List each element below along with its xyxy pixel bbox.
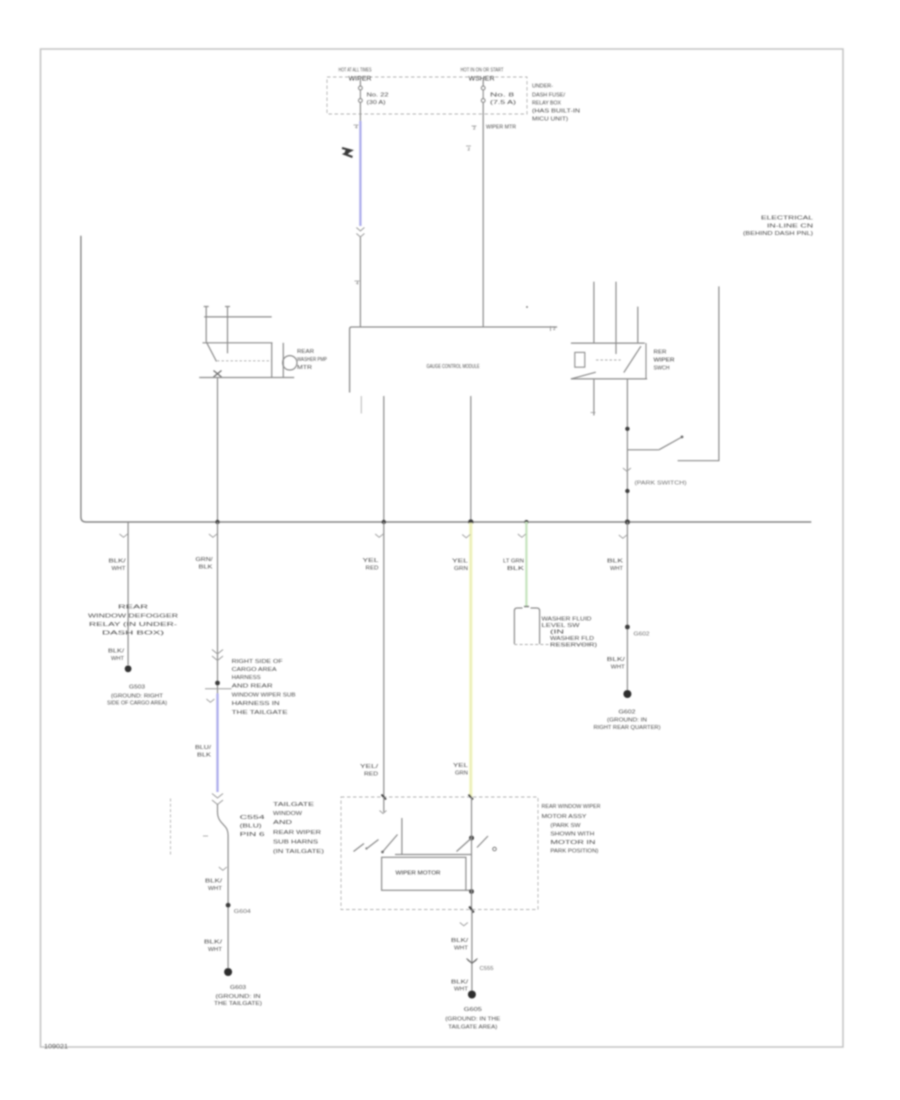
svg-text:HOT IN ON OR START: HOT IN ON OR START — [461, 68, 504, 74]
svg-text:SHOWN WITH: SHOWN WITH — [550, 832, 594, 838]
ground G3 — [623, 690, 631, 698]
svg-text:WIPER: WIPER — [654, 358, 675, 364]
svg-text:(BLU): (BLU) — [240, 824, 263, 830]
in-line connector C3 — [212, 794, 223, 805]
svg-text:BLK/: BLK/ — [108, 649, 125, 655]
svg-text:4: 4 — [356, 281, 359, 286]
svg-text:MOTOR ASSY: MOTOR ASSY — [542, 814, 588, 820]
in-line connector C1 — [356, 228, 364, 238]
svg-text:2: 2 — [467, 147, 470, 152]
drop A: wire bus to ground G1 — [127, 522, 129, 665]
wire color label drop D lower — [453, 763, 468, 777]
node: junction on lower run — [226, 903, 231, 908]
pin tick on module top — [550, 326, 552, 331]
stub wire below switch S1 — [593, 379, 595, 416]
svg-text:SIDE OF CARGO AREA): SIDE OF CARGO AREA) — [107, 701, 167, 707]
svg-text:2: 2 — [473, 126, 476, 131]
in-line connector C4 — [467, 959, 478, 964]
in-line connector note (right) — [743, 216, 813, 238]
svg-text:RIGHT SIDE OF: RIGHT SIDE OF — [232, 659, 283, 665]
svg-text:WHT: WHT — [208, 886, 222, 892]
svg-text:YEL: YEL — [453, 763, 468, 769]
wire: entry stub to switch — [383, 797, 385, 812]
switch S3 pole line — [401, 818, 403, 855]
wire: module pin to bus (left) — [383, 396, 385, 522]
svg-text:WHT: WHT — [454, 946, 468, 952]
washer motor M1: lever diagonal — [206, 342, 216, 362]
wire: motor assembly to ground G4 — [471, 910, 473, 992]
svg-text:G602: G602 — [634, 632, 650, 638]
svg-text:RELAY BOX: RELAY BOX — [532, 101, 562, 107]
svg-text:WHT: WHT — [610, 566, 623, 572]
svg-text:WASHER PMP: WASHER PMP — [297, 357, 328, 363]
svg-text:(BEHIND DASH PNL): (BEHIND DASH PNL) — [743, 231, 813, 237]
svg-text:C555: C555 — [480, 966, 494, 972]
switch S3 lever contacts — [354, 835, 398, 853]
wire: park switch return rail (L-shape) — [678, 286, 719, 460]
wire: module pin to bus (right) — [470, 396, 472, 522]
fuse F1 value label — [367, 93, 389, 107]
svg-text:THE TAILGATE: THE TAILGATE — [232, 710, 289, 716]
dashed continuation of sensor — [514, 644, 592, 646]
washer motor M1: body bottom line — [199, 377, 294, 379]
fuse box (dashed enclosure) — [327, 77, 527, 114]
node: junction at box bottom — [469, 889, 474, 894]
svg-text:WINDOW WIPER SUB: WINDOW WIPER SUB — [232, 693, 297, 699]
svg-text:WHT: WHT — [111, 656, 124, 662]
svg-text:WHT: WHT — [112, 566, 126, 572]
wire color label drop D — [452, 559, 468, 573]
svg-text:GAUGE CONTROL MODULE: GAUGE CONTROL MODULE — [427, 364, 480, 370]
svg-text:MTR: MTR — [297, 365, 313, 371]
drop D: YEL wire bus to wiper motor box — [469, 523, 473, 797]
contact tick inside box — [380, 811, 387, 814]
svg-text:WINDOW: WINDOW — [273, 811, 302, 817]
svg-text:BLK/: BLK/ — [607, 657, 626, 663]
drop B: wire bus to connector — [217, 522, 219, 694]
wire: connector C1 to module — [359, 237, 361, 327]
svg-text:PARK POSITION): PARK POSITION) — [550, 849, 598, 855]
svg-text:(7.5 A): (7.5 A) — [490, 100, 517, 106]
wire: drop B jog to lower run — [218, 804, 229, 968]
wire color label drop A — [109, 559, 127, 573]
node: junction on drop F — [625, 625, 630, 630]
wire: washer motor to bus — [217, 378, 219, 523]
pin 4 label on fuse F1 output — [354, 124, 359, 126]
wire color label drop B — [196, 557, 214, 571]
wiper switch S1: dashed link — [596, 359, 621, 361]
grommet dashed line — [170, 799, 172, 856]
fuse F2 symbol — [481, 86, 485, 102]
svg-text:(PARK SW: (PARK SW — [550, 823, 580, 829]
ground G3 label — [594, 710, 661, 732]
wiper switch S1: left contact box — [575, 352, 585, 367]
under-dash fuse/relay box label — [532, 84, 580, 123]
pin tick on wire — [466, 145, 471, 147]
wire color label drop E — [503, 559, 525, 573]
pin label on wire — [355, 280, 360, 282]
wiper switch S1: right edge — [645, 343, 647, 379]
svg-text:(GROUND: IN THE: (GROUND: IN THE — [445, 1017, 501, 1023]
svg-text:REAR WIPER: REAR WIPER — [273, 830, 321, 836]
park switch S2: throw line — [627, 449, 659, 451]
svg-text:THE TAILGATE): THE TAILGATE) — [214, 1001, 262, 1007]
rear wiper motor assembly (dashed enclosure) — [341, 797, 538, 910]
ground G1 — [125, 665, 132, 672]
washer motor M1: motor circle — [283, 356, 297, 370]
svg-text:(IN TAILGATE): (IN TAILGATE) — [273, 849, 324, 855]
svg-text:BLK/: BLK/ — [451, 938, 469, 944]
exit pin tick (bottom) — [469, 907, 474, 913]
tick on lower run — [219, 867, 227, 870]
svg-text:TAILGATE: TAILGATE — [273, 802, 315, 808]
svg-text:UNDER-: UNDER- — [532, 84, 553, 90]
ground G2 — [224, 968, 232, 976]
fuse F1 symbol — [359, 86, 363, 102]
svg-text:WINDOW DEFOGGER: WINDOW DEFOGGER — [88, 614, 178, 620]
wiper switch S1: lower-left lever — [571, 372, 596, 379]
svg-text:CARGO AREA: CARGO AREA — [232, 667, 278, 673]
svg-text:HARNESS IN: HARNESS IN — [232, 701, 280, 707]
drop E: GRN wire bus to washer unit — [525, 522, 528, 607]
wiper switch S1: body top — [571, 342, 645, 344]
svg-text:TAILGATE AREA): TAILGATE AREA) — [448, 1025, 497, 1031]
wire: switch S1 output down — [626, 379, 628, 522]
svg-text:C554: C554 — [240, 815, 265, 821]
connector C2 description label — [232, 659, 297, 716]
wire: BLU wire segment — [359, 121, 361, 226]
entry pin tick (yellow wire) — [469, 795, 474, 800]
connector tick below box — [460, 923, 468, 926]
wire color label drop F — [607, 559, 624, 573]
svg-text:2: 2 — [553, 326, 556, 331]
node: bus junction dots — [215, 519, 630, 524]
washer motor M1: commutator rectangle — [272, 343, 284, 378]
wire: central wire through box — [471, 797, 473, 910]
jog right label — [273, 802, 324, 855]
pin stub of module U1 — [360, 396, 362, 414]
washer motor M1: upper rail — [204, 316, 272, 318]
tick on jog — [203, 835, 208, 837]
svg-text:BLK: BLK — [199, 565, 214, 571]
node: junction below park switch — [625, 489, 629, 493]
connector tick on drop D — [462, 535, 470, 538]
washer motor M1: dashed interior — [217, 360, 272, 362]
svg-text:(GROUND: IN: (GROUND: IN — [607, 718, 647, 724]
svg-text:YEL/: YEL/ — [360, 764, 379, 770]
svg-text:RED: RED — [366, 566, 379, 572]
node: junction at yellow wire — [469, 836, 474, 841]
svg-text:GRN: GRN — [455, 771, 468, 777]
svg-text:109021: 109021 — [44, 1045, 69, 1051]
svg-text:MOTOR IN: MOTOR IN — [550, 840, 595, 846]
jog mid label — [240, 815, 265, 838]
in-line connector C2 — [212, 650, 223, 661]
wire: left ground rail and bus — [81, 236, 811, 522]
washer level sensor label — [542, 617, 598, 649]
wire: fuse F2 to module — [482, 102, 484, 327]
wiper switch S1: feed stubs — [594, 282, 638, 354]
wire color label above G4 — [451, 980, 469, 993]
svg-text:BLK: BLK — [197, 753, 212, 759]
svg-text:BLK/: BLK/ — [109, 559, 127, 565]
rear wiper motor assembly label — [542, 804, 601, 855]
svg-text:DASH FUSE/: DASH FUSE/ — [532, 93, 566, 99]
drop C: wire bus to wiper relay box — [383, 522, 385, 797]
svg-text:BLK/: BLK/ — [451, 980, 469, 986]
svg-text:RESERVOIR): RESERVOIR) — [550, 643, 597, 649]
svg-text:YEL: YEL — [363, 558, 379, 564]
svg-text:G503: G503 — [129, 685, 145, 691]
svg-text:SUB HARNS: SUB HARNS — [273, 840, 319, 846]
svg-text:PIN 6: PIN 6 — [240, 832, 265, 838]
pin 2 label below fuse box — [472, 125, 477, 127]
wire: motor box bottom to central wire — [466, 889, 472, 891]
svg-text:(HAS BUILT-IN: (HAS BUILT-IN — [532, 109, 580, 115]
washer motor M1: top connector stubs — [204, 307, 230, 354]
lever from junction (left) — [457, 838, 472, 852]
svg-text:IN-LINE CN: IN-LINE CN — [767, 224, 813, 230]
wire color label above G2 — [204, 940, 223, 954]
switch S3 common line — [395, 854, 472, 856]
lever from junction (right) — [477, 836, 488, 848]
svg-text:DASH BOX): DASH BOX) — [102, 631, 165, 637]
svg-text:4: 4 — [355, 125, 358, 130]
svg-text:G602: G602 — [619, 710, 636, 716]
svg-text:RER: RER — [654, 350, 667, 356]
node: junction on switch output — [625, 427, 629, 431]
svg-text:GRN: GRN — [454, 566, 468, 572]
connector tick on drop F — [619, 535, 627, 538]
svg-text:LEVEL SW: LEVEL SW — [542, 623, 580, 629]
svg-text:G604: G604 — [234, 909, 251, 915]
svg-text:WIPER MTR: WIPER MTR — [486, 125, 516, 131]
svg-text:WHT: WHT — [454, 987, 468, 993]
wire color label drop A lower — [108, 649, 125, 663]
svg-text:ELECTRICAL: ELECTRICAL — [761, 216, 813, 222]
connector tick on drop B — [209, 534, 217, 537]
svg-text:REAR: REAR — [118, 605, 149, 611]
svg-text:REAR WINDOW WIPER: REAR WINDOW WIPER — [542, 804, 601, 810]
connector tick on drop E — [518, 534, 526, 537]
wire color label BLU — [195, 745, 212, 759]
svg-text:REAR: REAR — [297, 349, 314, 355]
ground G1 label — [107, 685, 167, 707]
ground G4 — [468, 991, 476, 999]
wire color label lower run — [205, 879, 223, 893]
relay K1 label (on drop A) — [88, 605, 178, 637]
svg-text:No. 8: No. 8 — [490, 93, 514, 99]
node: junction on drop B — [215, 681, 220, 686]
svg-text:(30 A): (30 A) — [367, 100, 386, 106]
wiper switch S1: body bottom — [571, 378, 647, 380]
wire: fuse F1 feed stub — [359, 79, 361, 86]
connector X on washer motor output — [214, 371, 222, 378]
tick across drop B — [205, 688, 232, 690]
svg-text:(GROUND: IN: (GROUND: IN — [216, 994, 262, 1000]
connector tick on BLU — [206, 699, 214, 702]
svg-text:HOT AT ALL TIMES: HOT AT ALL TIMES — [339, 68, 372, 74]
wiper switch S1: lever — [624, 346, 641, 372]
svg-text:No. 22: No. 22 — [367, 93, 389, 99]
svg-text:WASHER FLUID: WASHER FLUID — [542, 617, 592, 623]
node speck — [526, 306, 528, 308]
wire color label drop C — [363, 558, 379, 572]
wire color label drop C lower — [360, 764, 379, 778]
svg-text:(PARK SWITCH): (PARK SWITCH) — [635, 481, 687, 487]
svg-text:YEL: YEL — [452, 559, 468, 565]
svg-text:G603: G603 — [230, 985, 246, 991]
svg-text:GRN/: GRN/ — [196, 557, 214, 563]
svg-text:WASHER FLD: WASHER FLD — [550, 636, 594, 642]
entry pin tick (left wire) — [382, 795, 387, 800]
wiper switch S1 label — [654, 350, 675, 372]
svg-text:SWCH: SWCH — [654, 366, 670, 372]
svg-text:WSHER: WSHER — [469, 76, 495, 83]
park switch S2: lever — [659, 438, 681, 450]
ground G2 label — [214, 985, 262, 1007]
svg-text:(IN: (IN — [550, 630, 564, 636]
svg-text:BLU/: BLU/ — [195, 745, 212, 751]
connector tick on wire — [623, 468, 631, 471]
svg-text:BLK: BLK — [507, 566, 525, 572]
connector tick on drop C — [375, 534, 383, 537]
note marker symbol — [342, 148, 353, 157]
wire color label below box — [451, 938, 469, 952]
svg-text:LT GRN: LT GRN — [503, 559, 524, 565]
ground G4 label — [445, 1007, 501, 1031]
washer level sensor U2 (open box) — [514, 608, 539, 644]
svg-text:RIGHT REAR QUARTER): RIGHT REAR QUARTER) — [594, 725, 661, 731]
svg-text:BLK: BLK — [607, 559, 624, 565]
wire: fuse F2 feed stub — [482, 79, 484, 86]
connector tick on drop A — [120, 534, 128, 537]
washer motor M1 label — [297, 349, 328, 371]
svg-text:HARNESS: HARNESS — [232, 675, 262, 681]
svg-text:RED: RED — [364, 772, 379, 778]
sensor entry tick — [524, 606, 529, 608]
svg-text:WIPER MOTOR: WIPER MOTOR — [396, 871, 441, 877]
svg-text:RELAY (IN UNDER-: RELAY (IN UNDER- — [89, 622, 177, 628]
svg-text:MICU UNIT): MICU UNIT) — [532, 117, 568, 123]
svg-text:WHT: WHT — [208, 947, 222, 953]
svg-text:BLK/: BLK/ — [205, 879, 223, 885]
svg-text:WHT: WHT — [611, 665, 625, 671]
wire: fuse F1 to connector (upper grey) — [359, 102, 361, 121]
svg-text:AND REAR: AND REAR — [232, 684, 273, 690]
fuse F2 value label — [490, 93, 517, 107]
wire color label drop F lower — [607, 657, 626, 671]
svg-text:BLK/: BLK/ — [204, 940, 223, 946]
wire: BLU segment of drop B — [216, 694, 218, 793]
wiper motor M2 box — [382, 857, 466, 890]
washer motor M1: body top line — [203, 342, 273, 344]
svg-text:G605: G605 — [464, 1007, 482, 1013]
svg-text:AND: AND — [273, 820, 292, 826]
drop F: wire bus to ground G3 — [626, 522, 628, 690]
svg-text:(GROUND: RIGHT: (GROUND: RIGHT — [111, 694, 163, 700]
control module U1 (open box) — [350, 327, 558, 393]
